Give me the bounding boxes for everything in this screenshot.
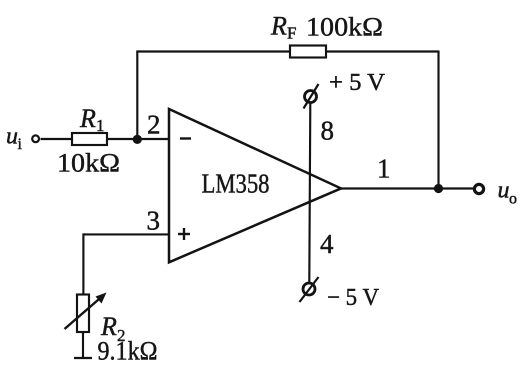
svg-text:8: 8 <box>321 116 335 146</box>
op-amp U1 LM358 <box>169 109 341 262</box>
svg-text:LM358: LM358 <box>202 169 270 199</box>
svg-text:R: R <box>79 104 96 133</box>
wire feedback right segment <box>326 50 439 52</box>
minus sign inverting input <box>180 137 191 139</box>
svg-text:+ 5 V: + 5 V <box>329 70 386 96</box>
pin 8 label <box>321 116 335 146</box>
svg-text:i: i <box>18 136 23 153</box>
value 10kΩ <box>57 149 120 178</box>
label R2 <box>100 312 126 345</box>
positive supply terminal +5V <box>304 84 319 109</box>
svg-text:9.1kΩ: 9.1kΩ <box>98 337 158 366</box>
svg-text:− 5 V: − 5 V <box>327 285 380 311</box>
svg-text:o: o <box>509 191 517 208</box>
svg-text:100kΩ: 100kΩ <box>306 13 383 42</box>
label LM358 <box>202 169 270 199</box>
svg-text:1: 1 <box>377 154 391 184</box>
label RF 100kΩ <box>270 12 383 43</box>
input terminal u_i <box>32 135 39 142</box>
potentiometer R2 <box>77 295 89 333</box>
svg-text:2: 2 <box>147 110 161 140</box>
resistor R1 <box>72 133 107 145</box>
node A junction dot <box>133 135 142 144</box>
svg-text:F: F <box>287 24 296 43</box>
value 9.1kΩ <box>98 337 158 366</box>
wire input to R1 <box>41 138 73 140</box>
pin 4 label <box>320 229 334 259</box>
output terminal u_o <box>474 184 483 193</box>
wire node A up to feedback <box>136 52 138 140</box>
label u_o <box>498 178 518 208</box>
label -5V <box>327 285 380 311</box>
wire feedback left segment <box>136 50 290 52</box>
svg-text:1: 1 <box>96 116 105 135</box>
negative supply terminal -5V <box>300 277 319 302</box>
svg-text:10kΩ: 10kΩ <box>57 149 120 178</box>
svg-text:3: 3 <box>147 206 161 236</box>
wire pin3 down to R2 <box>82 233 84 294</box>
wire R2 to ground bar <box>82 332 84 358</box>
svg-text:R: R <box>270 12 287 41</box>
svg-text:u: u <box>6 124 18 150</box>
pin 2 label <box>147 110 161 140</box>
potentiometer arrow <box>65 293 107 330</box>
label u_i <box>6 124 23 154</box>
wire feedback down to output node <box>437 51 439 189</box>
plus sign non-inverting input <box>178 228 190 240</box>
wire pin 8 supply <box>309 103 310 282</box>
wire output <box>341 187 473 189</box>
label +5V <box>329 70 386 96</box>
resistor RF <box>290 46 326 58</box>
output node junction dot <box>434 184 443 193</box>
label R1 <box>79 104 105 135</box>
ground bar terminal <box>74 357 92 359</box>
pin 1 label <box>377 154 391 184</box>
svg-text:4: 4 <box>320 229 334 259</box>
svg-text:u: u <box>498 178 510 204</box>
wire pin3 horizontal <box>83 233 169 235</box>
pin 3 label <box>147 206 161 236</box>
wire R1 to inverting input <box>107 138 169 140</box>
